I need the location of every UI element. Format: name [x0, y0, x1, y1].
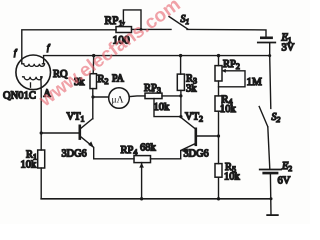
- ground bar: [267, 214, 278, 216]
- svg-text:3DG6: 3DG6: [184, 148, 209, 159]
- node bus2 E1 corner: [268, 54, 271, 57]
- sensor bottom electrode coil: [23, 77, 42, 80]
- potentiometer RP1: [116, 10, 141, 33]
- resistor R5: [215, 164, 222, 178]
- wire R3 bottom to VT2 collector: [181, 90, 196, 128]
- wire R2 top to bus2: [92, 56, 95, 74]
- sensor electrode stub B: [30, 83, 32, 87]
- wire S2 to E2: [268, 127, 270, 169]
- wire top bus middle segment: [132, 28, 172, 30]
- wire RP2 to R4: [218, 81, 220, 96]
- resistor R2: [90, 74, 97, 89]
- potentiometer RP4: [134, 156, 151, 199]
- svg-text:R2: R2: [98, 74, 109, 86]
- gas sensor RQ QN01C circle: [16, 55, 51, 90]
- resistor R3: [177, 74, 184, 90]
- svg-text:68k: 68k: [140, 143, 157, 154]
- transistor VT2: [181, 129, 219, 159]
- svg-text:f: f: [14, 48, 18, 57]
- svg-text:RP1: RP1: [105, 15, 123, 28]
- svg-text:QN01C: QN01C: [3, 91, 36, 102]
- wire VT1 base: [41, 132, 79, 134]
- potentiometer RP3: [145, 89, 181, 117]
- svg-text:VT2: VT2: [185, 112, 203, 124]
- potentiometer RP2: [215, 66, 245, 87]
- node R5 bottom bus: [217, 197, 220, 200]
- svg-text:10k: 10k: [21, 160, 38, 171]
- node RP3 right: [179, 94, 182, 97]
- battery E1: [258, 38, 276, 43]
- wire bus2 horizontal: [44, 55, 270, 57]
- node R2 bus2: [92, 54, 95, 57]
- svg-text:E2: E2: [281, 161, 292, 173]
- svg-text:3k: 3k: [186, 84, 197, 95]
- svg-text:RP4: RP4: [121, 145, 138, 157]
- svg-text:10k: 10k: [154, 102, 171, 113]
- node VT2 base junction: [217, 134, 220, 137]
- wire E2 to bottom bus and ground: [269, 174, 272, 215]
- svg-text:6V: 6V: [278, 176, 291, 187]
- wire R3 top to bus2: [180, 56, 182, 75]
- meter wire right: [130, 95, 146, 98]
- switch S1: [169, 17, 188, 29]
- node base junction VT1: [40, 131, 43, 134]
- wire top bus left segment: [22, 30, 116, 64]
- node bottom bus E2: [270, 197, 273, 200]
- resistor R4: [215, 96, 222, 111]
- switch S2: [259, 107, 268, 127]
- wire R5 to bottom bus: [218, 177, 220, 199]
- meter wire left: [93, 96, 109, 98]
- wire bottom bus: [41, 198, 271, 200]
- wire R1 to bottom bus: [40, 168, 42, 199]
- svg-text:f: f: [47, 43, 51, 52]
- meter PA microammeter: [109, 88, 130, 109]
- resistor R1: [38, 150, 45, 168]
- wire RP3 right terminal: [162, 95, 181, 97]
- wire emitter rail: [94, 158, 181, 160]
- svg-text:PA: PA: [112, 74, 125, 85]
- wire RP2 top to bus2: [218, 56, 220, 66]
- svg-text:VT1: VT1: [67, 112, 85, 124]
- node RP2 bus2: [217, 54, 220, 57]
- battery E2: [260, 170, 281, 174]
- node R3 bus2: [179, 54, 182, 57]
- sensor top heater coil: [22, 56, 45, 67]
- svg-text:3DG6: 3DG6: [62, 148, 87, 159]
- svg-text:RP2: RP2: [223, 59, 240, 71]
- svg-text:10k: 10k: [224, 172, 241, 183]
- node meter collector junction: [91, 95, 94, 98]
- svg-text:S1: S1: [181, 14, 190, 26]
- transistor VT1: [80, 89, 94, 159]
- svg-text:1M: 1M: [247, 76, 263, 88]
- svg-text:RP3: RP3: [144, 83, 161, 95]
- svg-text:S2: S2: [272, 112, 281, 124]
- svg-text:10k: 10k: [220, 104, 237, 115]
- svg-text:3V: 3V: [282, 43, 295, 54]
- node RP3 wiper: [179, 115, 182, 118]
- svg-text:μΛ: μΛ: [112, 95, 124, 105]
- wire electrode A lead down: [40, 77, 42, 150]
- node RP4 wiper bottom bus: [140, 197, 143, 200]
- node RP1 loop on bus: [140, 28, 143, 31]
- wire top bus right segment: [187, 29, 266, 36]
- wire R4 to R5: [218, 111, 220, 163]
- wire E1 to bus2 and S2: [270, 43, 271, 108]
